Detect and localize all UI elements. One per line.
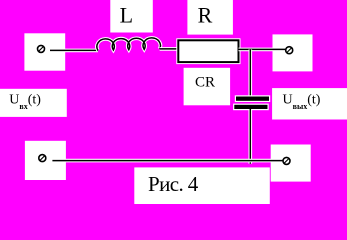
wire resistor to output terminal [239,48,286,52]
output terminal box bottom-right [271,145,311,182]
label box L [110,0,153,33]
terminal symbol top-left [38,45,45,52]
input terminal box top-left [24,33,65,70]
caption box Рис. 4 [134,167,269,205]
svg-text:CR: CR [195,75,215,91]
output terminal box top-right [273,34,313,71]
label box U_vyx(t) [272,88,347,119]
terminal symbol top-right [286,47,293,54]
capacitor CR top plate [235,95,270,102]
wire input terminal to inductor [50,49,98,53]
label box R [187,0,233,35]
terminal symbol bottom-left [39,155,46,162]
wire inductor to resistor [160,47,179,51]
node junction at top of capacitor branch [249,49,253,96]
bottom return wire [52,159,283,163]
svg-text:R: R [198,3,213,28]
svg-text:L: L [120,3,133,28]
input terminal box bottom-left [25,141,66,180]
terminal symbol bottom-right [283,157,290,164]
capacitor CR bottom plate [233,104,269,111]
resistor R [176,38,240,64]
svg-text:Рис. 4: Рис. 4 [148,172,199,196]
label box U_vx(t) [0,89,67,117]
wire capacitor to bottom wire [249,109,253,164]
inductor L [97,38,161,51]
label box CR [184,68,231,106]
